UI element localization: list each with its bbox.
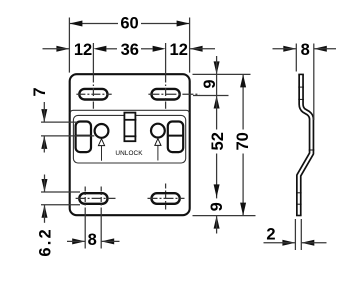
right side extension line bottom (y=216.3) — [193, 215, 256, 217]
dim line 9-52 segment — [216, 74, 218, 95]
dim 7 extension lines — [41, 121, 78, 123]
dim 52 top arrow — [214, 96, 220, 109]
dim 36 arrows — [93, 46, 106, 52]
band inner rounded rect — [73, 115, 185, 163]
side profile slot tick marks top — [298, 86, 304, 88]
centerline horizontal top-left slot — [76, 93, 111, 95]
dim 52 bottom arrow — [214, 184, 220, 197]
side profile tick mid — [309, 149, 315, 151]
dim 12/36/12 extension lines — [92, 43, 94, 74]
centerline vertical bottom-right slot — [165, 184, 167, 212]
hook left divider — [75, 135, 92, 137]
svg-text:60: 60 — [120, 14, 138, 32]
svg-text:12: 12 — [74, 41, 92, 59]
arrow under left circle — [98, 139, 104, 146]
dim 52 line — [216, 96, 218, 130]
centerline vertical top-left slot — [92, 75, 94, 109]
arrow under right circle — [155, 139, 161, 146]
right side extension line top (y=76) — [193, 73, 251, 75]
dim 2 extension lines — [294, 219, 296, 250]
svg-text:6.2: 6.2 — [37, 227, 55, 257]
centerline horizontal bottom-right slot — [148, 197, 185, 199]
hook right divider — [167, 135, 184, 137]
slot bottom-right — [152, 193, 180, 204]
band outer top line — [70, 110, 189, 113]
side view profile — [299, 75, 312, 216]
svg-text:7: 7 — [31, 87, 49, 96]
dim 8 bottom extension lines — [84, 211, 86, 249]
svg-text:12: 12 — [170, 41, 188, 59]
slot top-right — [152, 89, 180, 100]
side profile slot tick marks bottom — [296, 192, 302, 194]
dim 60 arrows — [69, 21, 82, 27]
svg-text:9: 9 — [208, 202, 226, 211]
dim 8 side arrows — [283, 46, 296, 52]
dim 70 arrows — [240, 74, 246, 87]
centerline horizontal bottom-left slot — [76, 197, 116, 199]
dim 8 side extension lines — [295, 44, 297, 72]
dim 8 bottom arrows — [72, 238, 85, 244]
side profile top cap — [298, 73, 304, 75]
svg-text:2: 2 — [266, 225, 275, 243]
dim 12 right arrow outside — [190, 46, 203, 52]
svg-text:UNLOCK: UNLOCK — [115, 150, 143, 157]
svg-text:8: 8 — [88, 231, 97, 249]
svg-text:52: 52 — [209, 132, 227, 150]
svg-text:70: 70 — [234, 132, 252, 150]
centerline vertical bottom-left slot pos1 — [84, 187, 86, 212]
dim 6.2 arrows — [42, 179, 48, 192]
central slider — [124, 113, 135, 142]
centerline vertical top-right slot — [165, 75, 167, 109]
svg-text:36: 36 — [121, 41, 139, 59]
slot top-left — [79, 89, 107, 100]
centerline horizontal top-right slot — [148, 93, 199, 95]
plate outline front view — [70, 74, 190, 215]
dim 60 extension lines — [68, 18, 70, 73]
dim 9 top arrow — [214, 61, 220, 74]
dim 9 bottom arrow — [214, 216, 220, 229]
right side extension line slot center (y=95.5) — [193, 95, 229, 97]
side profile bottom cap — [296, 215, 302, 217]
dim 6.2 extension lines — [41, 191, 80, 193]
slot bottom-left — [79, 193, 107, 204]
hook right — [168, 122, 183, 153]
dim 12 left arrow outside — [56, 46, 69, 52]
circle right — [151, 124, 165, 138]
circle left — [95, 124, 109, 138]
svg-text:8: 8 — [301, 41, 310, 59]
dim 60 line — [69, 23, 118, 25]
centerline vertical bottom-left slot pos2 — [100, 187, 102, 212]
dim 7 arrows — [41, 109, 47, 122]
dim 2 arrows — [282, 240, 295, 246]
hook left — [76, 122, 91, 153]
dim 70 line — [242, 74, 244, 129]
